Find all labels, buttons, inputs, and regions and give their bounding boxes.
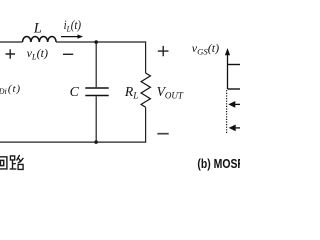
svg-text:VOUT: VOUT xyxy=(157,84,184,101)
node dot bottom xyxy=(94,140,98,144)
svg-text:iL(t): iL(t) xyxy=(64,17,81,34)
svg-text:(b) MOSFET: (b) MOSFET xyxy=(197,158,240,171)
node dot top xyxy=(94,40,98,44)
minus VOUT xyxy=(157,133,168,135)
dim arrow Ts line xyxy=(236,127,241,129)
wire cap top xyxy=(95,42,97,87)
wire right top xyxy=(145,41,147,73)
caption hui (回) partial at left edge xyxy=(0,157,7,169)
resistor RL zigzag xyxy=(141,73,150,107)
waveform high level line xyxy=(228,64,241,66)
current arrow iL xyxy=(61,36,80,38)
plus VOUT xyxy=(158,46,169,56)
caption lu (路) xyxy=(10,155,24,169)
waveform axis vertical with arrow xyxy=(227,54,229,90)
wire top middle xyxy=(56,41,146,43)
inductor L xyxy=(23,36,57,42)
dim arrow DTs line xyxy=(235,103,240,105)
wire cap bottom xyxy=(95,96,97,142)
dim arrow DTs head xyxy=(228,101,235,108)
svg-text:C: C xyxy=(70,85,80,100)
svg-text:RL: RL xyxy=(124,84,138,102)
capacitor C plate bottom xyxy=(85,95,108,97)
bottom wire xyxy=(0,141,146,143)
wire top left xyxy=(0,41,23,43)
wire right bottom xyxy=(145,107,147,142)
waveform time axis xyxy=(228,88,241,90)
capacitor C plate top xyxy=(85,87,108,89)
minus vL xyxy=(63,53,73,55)
svg-text:L: L xyxy=(33,20,42,36)
svg-text:vL(t): vL(t) xyxy=(27,46,48,62)
svg-text:vGS(t): vGS(t) xyxy=(192,41,219,57)
dim arrow Ts head xyxy=(229,125,236,132)
svg-text:vDi(t): vDi(t) xyxy=(0,83,21,96)
plus vL xyxy=(6,49,16,58)
dotted line xyxy=(226,90,228,133)
